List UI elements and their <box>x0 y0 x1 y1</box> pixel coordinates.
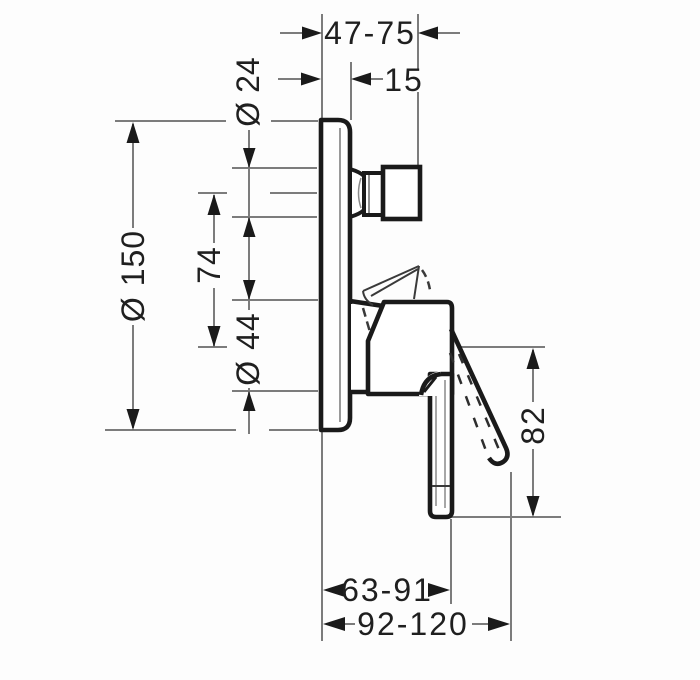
dimension 82 bottom arrow <box>527 496 540 517</box>
svg-text:74: 74 <box>191 246 227 284</box>
grip bar inner shading lines <box>436 380 445 508</box>
dimension 82 line <box>532 350 534 515</box>
stem bottom edge <box>350 390 370 395</box>
dimension 47-75 line tails <box>280 32 460 34</box>
dimension D44 upper arrow <box>243 280 256 300</box>
handle axis extension line (y=347) <box>198 346 227 348</box>
dimension D24 upper arrow <box>243 148 256 168</box>
dimension D44 lower arrow <box>243 391 256 411</box>
spout connector middle ring <box>364 173 383 215</box>
svg-text:Ø 24: Ø 24 <box>230 57 266 126</box>
wall reference extension line (upper) <box>321 14 323 119</box>
dimension 92-120 line segments <box>344 623 489 625</box>
dimension 15 left arrow <box>301 73 321 86</box>
dimension 63-91 right arrow <box>428 583 450 597</box>
plate front extension line <box>350 62 352 120</box>
handle stem (cartridge sleeve) <box>351 304 370 390</box>
lever raised dashed hidden edge <box>363 308 372 339</box>
dimension D150 line <box>132 124 134 428</box>
dimension 82 extension line top <box>461 346 545 348</box>
dimension 74 line <box>213 195 215 346</box>
extension line 63-91 right <box>450 519 452 604</box>
dimension 47-75 left arrow <box>302 27 322 40</box>
lever open position dashed edge A <box>450 353 489 459</box>
dimension 15 right arrow <box>351 73 371 86</box>
lever open position dashed edge B <box>459 354 500 452</box>
svg-text:92-120: 92-120 <box>357 606 469 642</box>
dimension 92-120 left arrow <box>323 617 345 631</box>
grip bar seam <box>432 485 450 487</box>
lever raised position (thin outline) <box>363 266 419 305</box>
dimension 15 line tails <box>278 78 383 80</box>
dimension D150 bottom arrow <box>127 409 140 430</box>
lever pivot dome <box>419 371 441 396</box>
plate top extension line (y=121) <box>115 120 318 122</box>
connector face extension line <box>417 14 419 166</box>
extension line 92-120 right <box>510 472 512 641</box>
spout axis extension line (y=193) <box>198 192 317 194</box>
taper waist line <box>359 178 362 208</box>
dimension D24 line <box>248 130 250 434</box>
handle bottom extension line (y=391) <box>232 390 318 392</box>
plate rim inner line <box>339 128 341 422</box>
wall reference extension line (lower) <box>321 431 323 641</box>
connector top extension line (y=168) <box>232 167 317 169</box>
dimension 74 top arrow <box>208 194 221 215</box>
escutcheon plate <box>321 120 350 430</box>
dimension 82 extension line bottom <box>439 516 561 518</box>
svg-text:82: 82 <box>515 405 551 445</box>
lever grip bar (closed position) <box>430 374 452 517</box>
dome chord <box>424 377 436 392</box>
stem top edge <box>350 301 383 306</box>
lever raised dashed tip arc <box>422 270 430 290</box>
connector bottom extension line (y=217) <box>232 216 317 218</box>
lever open position solid edge <box>451 329 507 464</box>
dimension 47-75 right arrow <box>418 27 438 40</box>
svg-text:47-75: 47-75 <box>324 15 416 51</box>
dimension 82 top arrow <box>527 348 540 369</box>
dimension 63-91 left arrow <box>323 583 345 597</box>
dimension 74 bottom arrow <box>208 326 221 347</box>
dome arc <box>421 374 441 395</box>
dimension D24 lower arrow <box>243 217 256 237</box>
middle ring inner line <box>368 175 370 213</box>
plate bottom extension line (y=430) <box>105 429 318 431</box>
svg-text:Ø 44: Ø 44 <box>230 312 266 385</box>
spout connector outer ring <box>383 167 420 219</box>
dimension D150 top arrow <box>127 122 140 143</box>
handle top extension line (y=300) <box>232 299 318 301</box>
svg-text:63-91: 63-91 <box>341 572 433 608</box>
spout connector taper <box>350 169 364 217</box>
dimension 92-120 right arrow <box>488 617 510 631</box>
svg-text:Ø 150: Ø 150 <box>115 230 151 322</box>
handle body <box>368 302 452 394</box>
svg-text:15: 15 <box>384 62 424 98</box>
